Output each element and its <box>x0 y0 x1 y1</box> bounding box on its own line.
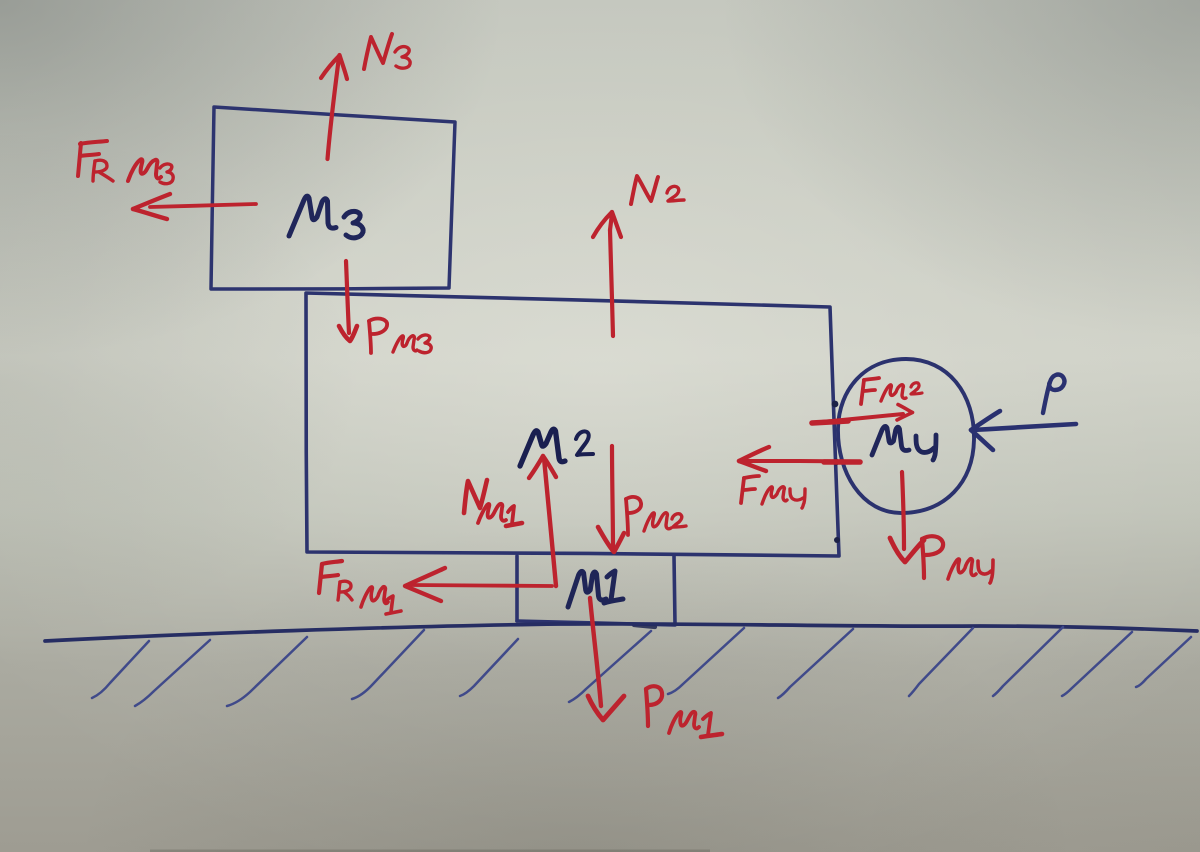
label PM3 <box>369 319 431 353</box>
label M2 (blue) <box>520 429 593 466</box>
body M2 box <box>306 293 839 556</box>
label PM4 <box>922 536 993 583</box>
force arrow PM1 <box>588 598 624 720</box>
hatch 7 <box>668 628 744 694</box>
force arrow NM1 <box>529 456 556 586</box>
force arrow FR M3 <box>133 194 256 219</box>
label M4 (blue) <box>872 426 936 460</box>
label PM1 <box>646 686 722 737</box>
hatch 6 <box>569 631 651 702</box>
hatch 2 <box>135 640 210 706</box>
hatch 5 <box>460 639 518 696</box>
label M3 (blue) <box>289 196 363 238</box>
hatch 4 <box>352 630 424 699</box>
hatch 8 <box>778 629 853 698</box>
body M3 box <box>211 107 455 289</box>
label N3 <box>364 34 410 69</box>
force arrow P (blue) <box>971 411 1076 450</box>
label FM2 <box>861 378 922 404</box>
force arrow PM3 <box>339 261 357 341</box>
body M4 circle <box>838 359 974 513</box>
junction dot C <box>834 537 840 543</box>
force arrow PM2 <box>598 446 624 552</box>
junction segment M1 bottom <box>634 625 655 627</box>
hatch 12 <box>1136 637 1191 687</box>
hatch 1 <box>92 641 149 698</box>
force arrow N2 <box>593 212 621 336</box>
force arrow N3 <box>321 55 347 159</box>
bottom photo edge shadow <box>150 850 710 852</box>
label M1 (blue) <box>568 571 623 607</box>
label PM2 <box>626 497 686 535</box>
ground line <box>45 624 1197 641</box>
hatch 10 <box>993 627 1063 696</box>
label FR M3 <box>78 141 173 184</box>
force arrow PM4 <box>890 472 924 562</box>
label NM1 <box>464 480 522 526</box>
label N2 <box>631 176 684 204</box>
label FR M1 <box>319 561 401 614</box>
hatch 3 <box>227 637 307 706</box>
hatch 11 <box>1062 632 1132 696</box>
label FM4 <box>741 476 805 508</box>
junction dot A <box>832 401 839 408</box>
force arrow FR M1 <box>405 568 552 601</box>
body M1 box <box>517 556 675 625</box>
force arrow FM2 <box>812 405 913 424</box>
force arrow FM4 <box>739 447 860 471</box>
junction dot B <box>833 459 840 466</box>
label P (blue) <box>1043 375 1064 413</box>
hatch 9 <box>909 628 973 696</box>
